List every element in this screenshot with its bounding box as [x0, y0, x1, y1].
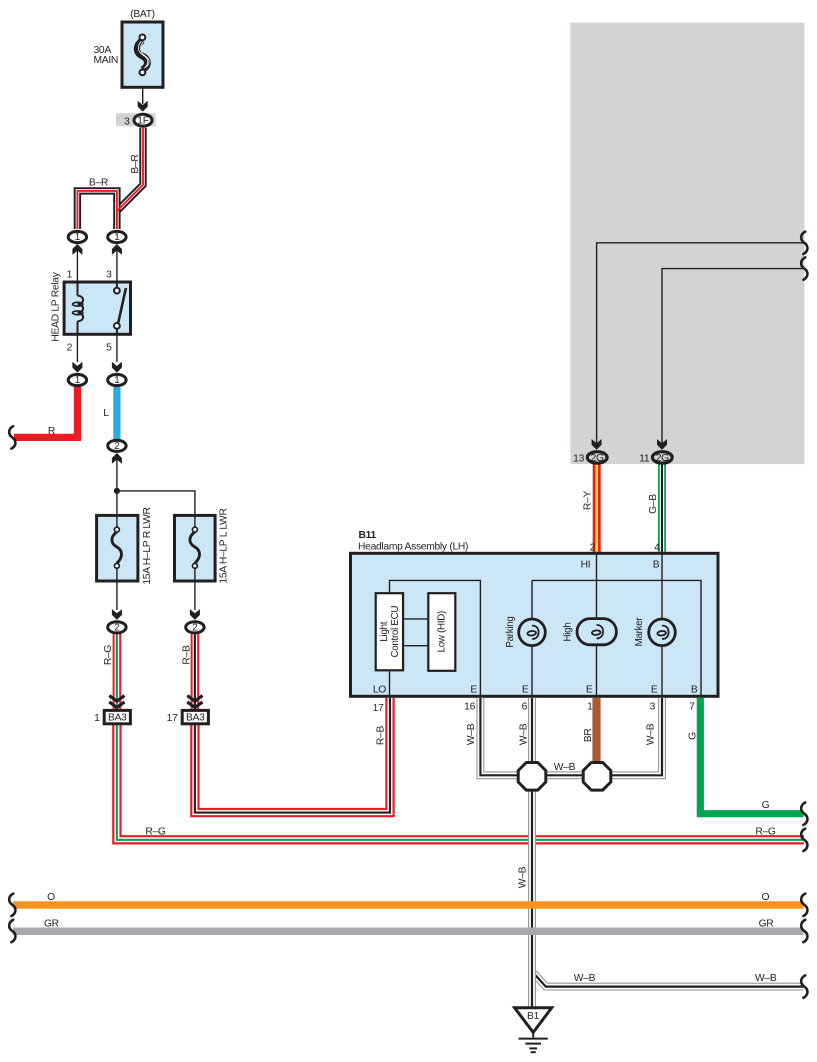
connector oval 1 below relay pin5 — [108, 374, 126, 385]
fuse 15A H-LP R LWR block — [97, 515, 138, 581]
svg-text:1: 1 — [114, 232, 120, 243]
bus GR (gray) — [13, 928, 804, 936]
svg-text:1: 1 — [114, 375, 120, 386]
svg-text:R–Y: R–Y — [583, 491, 594, 511]
svg-text:High: High — [563, 623, 574, 642]
connector oval 2 (L side) — [186, 622, 204, 633]
double chevron into BA3 no.1 — [109, 696, 124, 708]
svg-text:Light: Light — [379, 621, 390, 641]
svg-text:2: 2 — [67, 343, 73, 354]
svg-text:E: E — [470, 684, 477, 695]
svg-text:17: 17 — [167, 713, 178, 724]
svg-text:GR: GR — [759, 919, 774, 930]
svg-text:R–B: R–B — [182, 645, 193, 665]
svg-text:B1: B1 — [527, 1011, 540, 1022]
parking bulb — [519, 619, 546, 646]
svg-text:1: 1 — [75, 375, 81, 386]
svg-text:(BAT): (BAT) — [130, 9, 155, 20]
svg-text:16: 16 — [464, 702, 475, 713]
svg-text:3: 3 — [106, 270, 112, 281]
svg-text:2: 2 — [114, 623, 120, 634]
fuse 30A MAIN block — [122, 22, 163, 87]
svg-text:2: 2 — [114, 441, 120, 452]
wire R-B below BA3 to B11 pin17 — [195, 698, 390, 813]
wire W-B pin3 to right junction — [609, 698, 662, 775]
B11 headlamp assembly box — [351, 553, 719, 696]
connector BA3 no.1 — [104, 710, 130, 723]
marker bulb circuit — [661, 552, 663, 698]
Light Control ECU box — [376, 593, 403, 670]
arrow up into left oval1 + wire to relay pin1 — [72, 244, 82, 282]
svg-text:W–B: W–B — [646, 723, 657, 745]
arrow up into right oval1 + wire to relay pin3 — [112, 244, 122, 282]
svg-text:B: B — [653, 560, 660, 571]
svg-text:7: 7 — [689, 702, 695, 713]
wire R-G below BA3 to right edge bus — [117, 722, 804, 840]
arrow up into oval2 + wire down to junction — [112, 453, 122, 515]
wire W-B pin6 to left junction — [528, 698, 536, 764]
svg-text:E: E — [651, 684, 658, 695]
svg-text:B: B — [691, 684, 698, 695]
ground hatch — [519, 1032, 548, 1052]
wire fuse to 1F — [142, 88, 144, 104]
svg-text:R–G: R–G — [145, 827, 166, 838]
svg-text:Headlamp Assembly (LH): Headlamp Assembly (LH) — [358, 541, 468, 552]
wire W-B left junction to ground — [528, 786, 536, 1008]
bulb rail and pin7 drop — [532, 580, 701, 696]
svg-text:17: 17 — [373, 703, 384, 714]
high bulb circuit — [596, 552, 598, 698]
svg-text:BA3: BA3 — [186, 713, 205, 724]
svg-text:W–B: W–B — [755, 973, 777, 984]
wire G-B 2G to B11 pin4 — [658, 464, 666, 552]
wire R-B fuse to BA3 — [191, 633, 200, 712]
Low (HID) box — [428, 593, 455, 671]
wire G pin7 to right edge — [700, 698, 803, 814]
svg-text:13: 13 — [573, 453, 584, 464]
connector oval 1 (left, relay pin1 side) — [68, 231, 86, 242]
fuse 15A H-LP L LWR block — [175, 515, 216, 581]
arrows down into ovals below relay — [72, 362, 82, 373]
wire W-B ground branch to right edge — [532, 972, 804, 987]
svg-text:O: O — [761, 892, 769, 903]
wire W-B between junctions — [544, 771, 585, 779]
arrows into ovals 2 — [112, 609, 122, 620]
svg-text:R–B: R–B — [376, 726, 387, 746]
relay HEAD LP Relay box — [64, 282, 130, 334]
svg-text:6: 6 — [522, 702, 528, 713]
svg-text:5: 5 — [106, 343, 112, 354]
svg-text:1: 1 — [587, 702, 593, 713]
svg-text:R: R — [48, 426, 55, 437]
svg-text:G: G — [762, 800, 770, 811]
svg-text:Control ECU: Control ECU — [390, 606, 401, 658]
wires fuses to arrows — [116, 581, 118, 610]
svg-text:1: 1 — [67, 270, 73, 281]
svg-text:HEAD LP Relay: HEAD LP Relay — [51, 271, 62, 341]
connector BA3 no.17 — [182, 710, 208, 723]
connector oval 1F — [134, 114, 152, 126]
parking bulb circuit — [531, 580, 533, 697]
continuation brace R — [9, 426, 15, 448]
svg-text:R–G: R–G — [103, 645, 114, 666]
fuse element R — [112, 515, 122, 581]
svg-text:1F: 1F — [137, 115, 148, 126]
svg-text:2G: 2G — [656, 453, 669, 464]
svg-text:GR: GR — [44, 919, 59, 930]
shield wire 2 to 2G pin11 — [662, 269, 804, 445]
svg-text:2G: 2G — [591, 453, 604, 464]
svg-text:1: 1 — [94, 713, 100, 724]
arrows into 2G connectors — [592, 439, 602, 450]
svg-text:3: 3 — [124, 116, 130, 127]
wire R-G fuse to BA3 — [113, 633, 122, 712]
svg-text:B11: B11 — [359, 530, 377, 541]
svg-text:MAIN: MAIN — [94, 55, 119, 66]
svg-text:E: E — [586, 684, 593, 695]
connector oval 2 below L wire — [108, 440, 126, 451]
wire B-R from 1F to relay pins (black outline) — [77, 128, 143, 229]
shield box (junction block, gray) — [570, 23, 804, 464]
wire R (red) from oval to left edge — [14, 386, 77, 437]
connector oval 1 below relay pin2 — [68, 374, 86, 385]
svg-text:Parking: Parking — [505, 616, 516, 647]
junction octagon left — [518, 763, 546, 791]
connector oval 2G pin13 — [587, 452, 607, 463]
svg-text:W–B: W–B — [519, 723, 530, 745]
junction octagon right — [583, 763, 611, 791]
fuse element 30A — [137, 35, 149, 76]
svg-text:W–B: W–B — [554, 762, 576, 773]
relay switch — [114, 282, 126, 334]
svg-text:Marker: Marker — [634, 617, 645, 647]
svg-text:11: 11 — [639, 453, 650, 464]
junction node + branch to right fuse — [114, 488, 195, 516]
wire W-B pin16 to left junction — [480, 698, 520, 775]
svg-text:L: L — [103, 408, 109, 419]
svg-text:R–G: R–G — [755, 827, 776, 838]
svg-text:W–B: W–B — [518, 866, 529, 888]
connector 1F gray strip — [116, 113, 156, 126]
connector oval 2 (R side) — [108, 622, 126, 633]
svg-text:15A H–LP R LWR: 15A H–LP R LWR — [142, 507, 153, 584]
svg-text:BA3: BA3 — [108, 713, 127, 724]
high bulb — [577, 619, 616, 645]
bus O (orange) — [13, 901, 804, 909]
double chevron into BA3 no.17 — [187, 696, 202, 708]
connector oval 1 (right, relay pin3 side) — [108, 231, 126, 242]
wire R-Y 2G to B11 pin2 — [593, 464, 601, 552]
svg-text:1: 1 — [75, 232, 81, 243]
relay coil — [73, 282, 84, 334]
svg-text:W–B: W–B — [466, 723, 477, 745]
svg-text:LO: LO — [373, 684, 386, 695]
arrow into 1F — [138, 101, 148, 112]
connector oval 2G pin11 — [652, 452, 672, 463]
svg-text:BR: BR — [583, 728, 594, 742]
svg-text:15A H–LP L LWR: 15A H–LP L LWR — [219, 508, 230, 583]
wire L (blue) — [113, 386, 120, 440]
svg-text:2: 2 — [192, 623, 198, 634]
svg-text:W–B: W–B — [574, 973, 596, 984]
svg-text:E: E — [522, 684, 529, 695]
wires relay pins down to arrows — [76, 334, 78, 362]
svg-text:O: O — [47, 892, 55, 903]
fuse element L — [190, 515, 200, 581]
svg-text:Low (HID): Low (HID) — [437, 611, 448, 652]
light control ECU internal wiring — [390, 580, 481, 696]
shield wire 1 to 2G pin13 — [597, 243, 804, 445]
continuation brace R-G bus — [801, 829, 807, 851]
ground B1 triangle — [515, 1008, 552, 1033]
svg-text:G–B: G–B — [648, 494, 659, 514]
svg-text:HI: HI — [581, 560, 591, 571]
svg-text:3: 3 — [650, 702, 656, 713]
svg-text:B–R: B–R — [89, 178, 108, 189]
wire BR pin1 to right junction — [592, 698, 600, 764]
svg-text:B–R: B–R — [130, 154, 141, 173]
marker bulb — [649, 619, 676, 646]
